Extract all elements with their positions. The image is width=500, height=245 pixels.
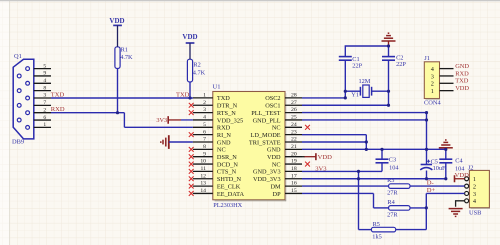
svg-text:5: 5 [43,63,46,69]
net label TXD on J1 pin 2 [455,78,469,85]
wire C1 top lead [345,46,388,57]
svg-text:6: 6 [203,129,206,135]
svg-text:3: 3 [203,107,206,113]
svg-text:17: 17 [291,173,297,179]
junction pin26 vertical [425,111,428,114]
net label TXD at Q1 pin 3 [51,92,65,99]
wire OSC1 U1 pin27 to crystal [302,104,389,106]
wire RXD jog vertical [123,113,125,128]
svg-text:11: 11 [201,166,207,172]
svg-text:SHTD_N: SHTD_N [217,176,242,183]
U1 no-connect X marks left pins 2,3,6,8,9,10,11,12,13,14 [189,103,194,196]
wire DP U1 pin15 [302,192,374,194]
svg-text:RXD: RXD [455,70,469,77]
svg-text:22: 22 [291,137,297,143]
svg-text:12M: 12M [359,78,371,85]
power port 3V3 at U1 pin 4 [156,116,193,124]
power port VDD at U1 pin 20 [302,153,332,161]
svg-text:VDD_3V3: VDD_3V3 [253,176,281,183]
svg-text:GND: GND [267,147,281,154]
wire crystal right lead [372,90,389,92]
wire TXD from Q1 pin3 to U1 pin1 [51,97,193,99]
wire R1 bottom to RXD [117,69,119,113]
junction corner OSC2 at C1 vertical [344,96,347,99]
wire R4 right lead [410,207,426,209]
signal ground at U1 pin 7 [161,135,193,149]
capacitor C1 22P [339,56,363,69]
svg-text:NC: NC [217,147,226,154]
wire DP vertical to R4 [373,193,375,207]
wire RXD to U1 pin5 [124,126,192,128]
svg-text:18: 18 [291,166,297,172]
svg-text:4: 4 [43,78,46,84]
crystal Y1 12M [351,78,371,99]
svg-text:DCD_N: DCD_N [217,161,238,168]
U1 left pins 1-14 with numbers and names [193,93,245,198]
J2 value USB [469,210,481,217]
net label RXD at Q1 pin 2 [51,106,65,113]
wire DM U1 pin16 to R3 [302,185,389,187]
wire ground vertical to C5 [426,113,428,165]
svg-text:2: 2 [431,81,434,88]
svg-text:25: 25 [291,115,297,121]
svg-text:TRI_STATE: TRI_STATE [249,139,281,146]
connector Q1 DB9 body [13,59,34,139]
wire C2 top lead [388,46,390,57]
junction corner OSC1 at C2 vertical [387,104,390,107]
J1 designator [424,55,430,62]
svg-text:6: 6 [43,115,46,121]
svg-text:27R: 27R [387,212,398,219]
svg-text:8: 8 [203,144,206,150]
svg-text:Y1: Y1 [351,92,359,99]
svg-text:C4: C4 [455,157,463,164]
svg-text:22P: 22P [396,61,406,68]
svg-text:10: 10 [200,159,206,165]
svg-text:NC: NC [272,161,281,168]
svg-text:GND: GND [217,139,231,146]
wire R4 left lead [374,207,389,209]
wire C3 bottom lead [381,163,383,172]
junction D+ R4 lead [425,206,428,209]
junction R2 on TXD [188,96,191,99]
svg-text:4: 4 [203,115,206,121]
svg-text:28: 28 [291,93,297,99]
junction VDD_3V3 R5 crossing [357,177,360,180]
resistor R5 1k5 [371,221,395,241]
svg-text:LD_MODE: LD_MODE [251,132,281,139]
wire OSC2 U1 pin28 to crystal [302,97,345,99]
U1 value PL2303HX [213,202,242,209]
svg-text:J2: J2 [468,165,474,172]
earth ground at J2 pin 4 [449,201,465,217]
svg-text:OSC1: OSC1 [265,103,280,110]
svg-text:Q1: Q1 [14,53,22,60]
svg-text:PLL_TEST: PLL_TEST [251,110,281,117]
svg-text:15: 15 [291,188,297,194]
wire C4 bottom lead [445,163,447,179]
junction ground rail C4 end [444,148,447,151]
svg-text:R1: R1 [121,46,128,53]
capacitor C2 22P [382,54,406,68]
svg-text:GND_PLL: GND_PLL [253,117,281,124]
resistor R4 27R [387,199,410,218]
junction pin22 pin23 [365,140,368,143]
capacitor C4 104 [439,157,465,172]
wire U1 pin22 TRI_STATE [302,141,366,143]
connector J1 CON4 body [424,62,440,100]
power port VDD above R2 [182,33,197,59]
svg-text:R2: R2 [193,61,200,68]
junction 3V3 R5 vertical [357,170,360,173]
U1 designator [213,84,221,91]
wire C4 top lead [445,149,447,159]
svg-text:DP: DP [273,191,282,198]
junction crystal right on C2 lead [387,90,390,93]
junction pin25 vertical [425,118,428,121]
svg-text:1: 1 [43,122,46,128]
resistor R1 4.7K [115,46,133,68]
U1 right pins 28-15 with numbers and names [249,93,302,198]
svg-text:VDD: VDD [455,172,470,179]
svg-text:3: 3 [431,73,434,80]
wire C1 crystal vertical [344,60,346,98]
junction R1 on RXD [116,111,119,114]
svg-text:104: 104 [389,164,399,171]
svg-text:19: 19 [291,159,297,165]
wire U1 pin26 PLL_TEST [302,112,427,114]
wire R5 right lead [396,229,427,231]
svg-text:8: 8 [43,85,46,91]
Q1 pins and pin numbers [34,63,51,128]
svg-text:RXD: RXD [217,125,231,132]
svg-text:VDD: VDD [318,154,333,161]
svg-text:24: 24 [291,122,297,128]
svg-text:14: 14 [200,188,206,194]
J2 pins circles and numbers [465,176,477,205]
Q1 designator [14,53,22,60]
svg-text:12: 12 [200,173,206,179]
svg-text:4.7K: 4.7K [193,70,206,77]
svg-text:16: 16 [291,181,297,187]
svg-text:NC: NC [272,125,281,132]
svg-text:3V3: 3V3 [156,117,167,124]
svg-text:1: 1 [431,88,434,95]
wire D+ from J2 pin3 [426,192,464,194]
wire pin23 to pin22 vertical [365,135,367,150]
svg-text:2: 2 [203,100,206,106]
wire VDD_3V3 rail from U1 pin17 [302,178,445,180]
svg-text:7: 7 [203,137,206,143]
svg-text:U1: U1 [213,84,221,91]
svg-text:R4: R4 [387,199,395,206]
wire U1 pin25 GND_PLL [302,119,427,121]
earth ground above C2 (oscillator) [382,33,396,46]
svg-text:2: 2 [473,183,476,190]
wire crystal left lead [345,90,360,92]
svg-text:R5: R5 [373,221,380,228]
net label TXD at U1 pin 1 [176,92,190,99]
Q1 value DB9 [12,138,24,145]
svg-text:13: 13 [200,181,206,187]
power port VDD above R1 [109,17,124,47]
svg-text:20: 20 [291,151,297,157]
junction VDD_3V3 C4 end [444,177,447,180]
svg-text:9: 9 [203,151,206,157]
wire ground rail from U1 pin21 [302,148,446,150]
net label D- near J2 pin 2 [427,180,434,187]
svg-text:1: 1 [473,176,476,183]
wire 3V3 from U1 pin18 to C3 [302,170,382,172]
svg-text:VDD: VDD [455,85,469,92]
net label GND on J1 pin 4 [455,63,469,70]
svg-text:RTS_N: RTS_N [217,110,236,117]
net label RXD on J1 pin 3 [455,70,469,77]
svg-text:CTS_N: CTS_N [217,169,237,176]
wire R2 bottom to TXD [189,82,191,98]
svg-text:3: 3 [43,93,46,99]
wire U1 pin23 LD_MODE [302,134,366,136]
wire D+ vertical to R4 R5 [425,193,427,229]
svg-text:1: 1 [203,93,206,99]
svg-text:RI_N: RI_N [217,132,231,139]
svg-text:VDD: VDD [267,154,281,161]
svg-text:EE_DATA: EE_DATA [217,191,245,198]
wire C2 crystal vertical [388,60,390,105]
svg-text:GND_3V3: GND_3V3 [253,169,281,176]
junction earth on oscillator top wire [387,44,390,47]
wire R5 pullup vertical [358,171,360,229]
svg-text:9: 9 [43,71,46,77]
connector J2 USB body [469,170,490,209]
wire C5 bottom lead [426,171,428,179]
svg-text:TXD: TXD [217,95,230,102]
J1 value CON4 [424,99,441,106]
svg-text:7: 7 [43,100,46,106]
resistor R2 4.7K [187,59,205,82]
svg-text:2: 2 [43,107,46,113]
svg-text:DM: DM [270,183,281,190]
svg-text:TXD: TXD [455,78,469,85]
svg-text:GND: GND [455,63,469,70]
svg-text:5: 5 [203,122,206,128]
svg-text:1k5: 1k5 [372,233,381,240]
junction ground rail C5 [425,148,428,151]
op chip U1 PL2303HX body [213,92,287,202]
net label 3V3 on U1 pin 18 wire [315,166,327,173]
svg-text:27R: 27R [387,190,398,197]
svg-text:4.7K: 4.7K [120,54,133,61]
svg-text:23: 23 [291,129,297,135]
svg-text:3: 3 [473,191,476,198]
power port VDD at J2 pin 1 [455,172,470,182]
U1 no-connect X marks right pins 24,19 [305,125,310,167]
svg-text:DB9: DB9 [12,138,24,145]
svg-text:22P: 22P [352,63,362,70]
net label VDD on J1 pin 1 [455,85,469,92]
svg-text:27: 27 [291,100,297,106]
junction VDD_3V3 C5 bottom [425,177,428,180]
svg-text:VDD_325: VDD_325 [217,117,243,124]
svg-text:OSC2: OSC2 [265,95,280,102]
svg-text:26: 26 [291,107,297,113]
resistor R3 27R [387,177,410,196]
svg-text:DTR_N: DTR_N [217,103,238,110]
wire D- from R3 to J2 pin2 [410,185,465,187]
svg-text:VDD: VDD [109,17,124,25]
net label D+ near J2 pin 3 [427,187,436,194]
svg-text:VDD: VDD [182,33,197,41]
svg-text:PL2303HX: PL2303HX [213,202,242,209]
svg-text:10uF: 10uF [433,165,446,172]
J1 pins and numbers [431,66,454,95]
wire R5 left lead [359,229,372,231]
svg-text:USB: USB [469,210,481,217]
svg-text:J1: J1 [424,55,430,62]
svg-text:DSR_N: DSR_N [217,154,237,161]
junction crystal left on C1 lead [344,90,347,93]
capacitor C5 10uF electrolytic [420,158,446,172]
junction ground rail C3 [380,148,383,151]
svg-text:CON4: CON4 [424,99,441,106]
svg-text:C3: C3 [389,156,396,163]
earth ground above C4 [439,140,453,149]
J2 designator [468,165,474,172]
svg-text:21: 21 [291,144,297,150]
capacitor C3 104 [376,156,400,171]
wire C3 top lead [381,149,383,159]
svg-text:EE_CLK: EE_CLK [217,183,241,190]
junction ground rail pin22 branch [365,148,368,151]
wire RXD horizontal from Q1 pin2 [51,112,124,114]
